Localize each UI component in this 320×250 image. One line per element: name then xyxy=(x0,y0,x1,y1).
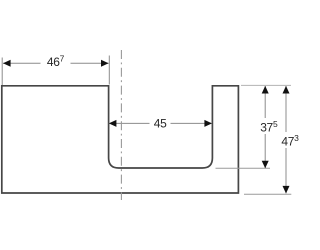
arrow up of 47 dim xyxy=(283,86,290,94)
label 45 xyxy=(150,115,171,129)
label 46^7 xyxy=(41,54,71,68)
extension line right of 46 dim xyxy=(108,56,110,85)
extension line bottom right xyxy=(244,193,291,195)
arrow down of 37 dim xyxy=(262,161,269,169)
label 37^5 xyxy=(258,118,279,134)
countertop outline with U cutout xyxy=(2,86,239,193)
dimension line 46 xyxy=(3,62,109,64)
dimension line 45 xyxy=(109,122,212,124)
arrow left of 46 dim xyxy=(3,60,11,67)
arrow right of 45 dim xyxy=(204,120,212,127)
svg-text:45: 45 xyxy=(154,117,167,131)
arrow up of 37 dim xyxy=(262,86,269,94)
dimension line 37 (vertical) xyxy=(264,86,266,168)
dimension line 47 (vertical) xyxy=(285,86,287,193)
arrow right of 46 dim xyxy=(101,60,109,67)
arrow left of 45 dim xyxy=(109,120,117,127)
extension line top right xyxy=(241,84,291,86)
centerline (dash-dot axis) xyxy=(120,50,122,200)
extension line left of 46 dim xyxy=(1,58,3,86)
extension line at cutout bottom xyxy=(216,167,271,169)
arrow down of 47 dim xyxy=(283,186,290,194)
label 47^3 xyxy=(279,132,300,148)
